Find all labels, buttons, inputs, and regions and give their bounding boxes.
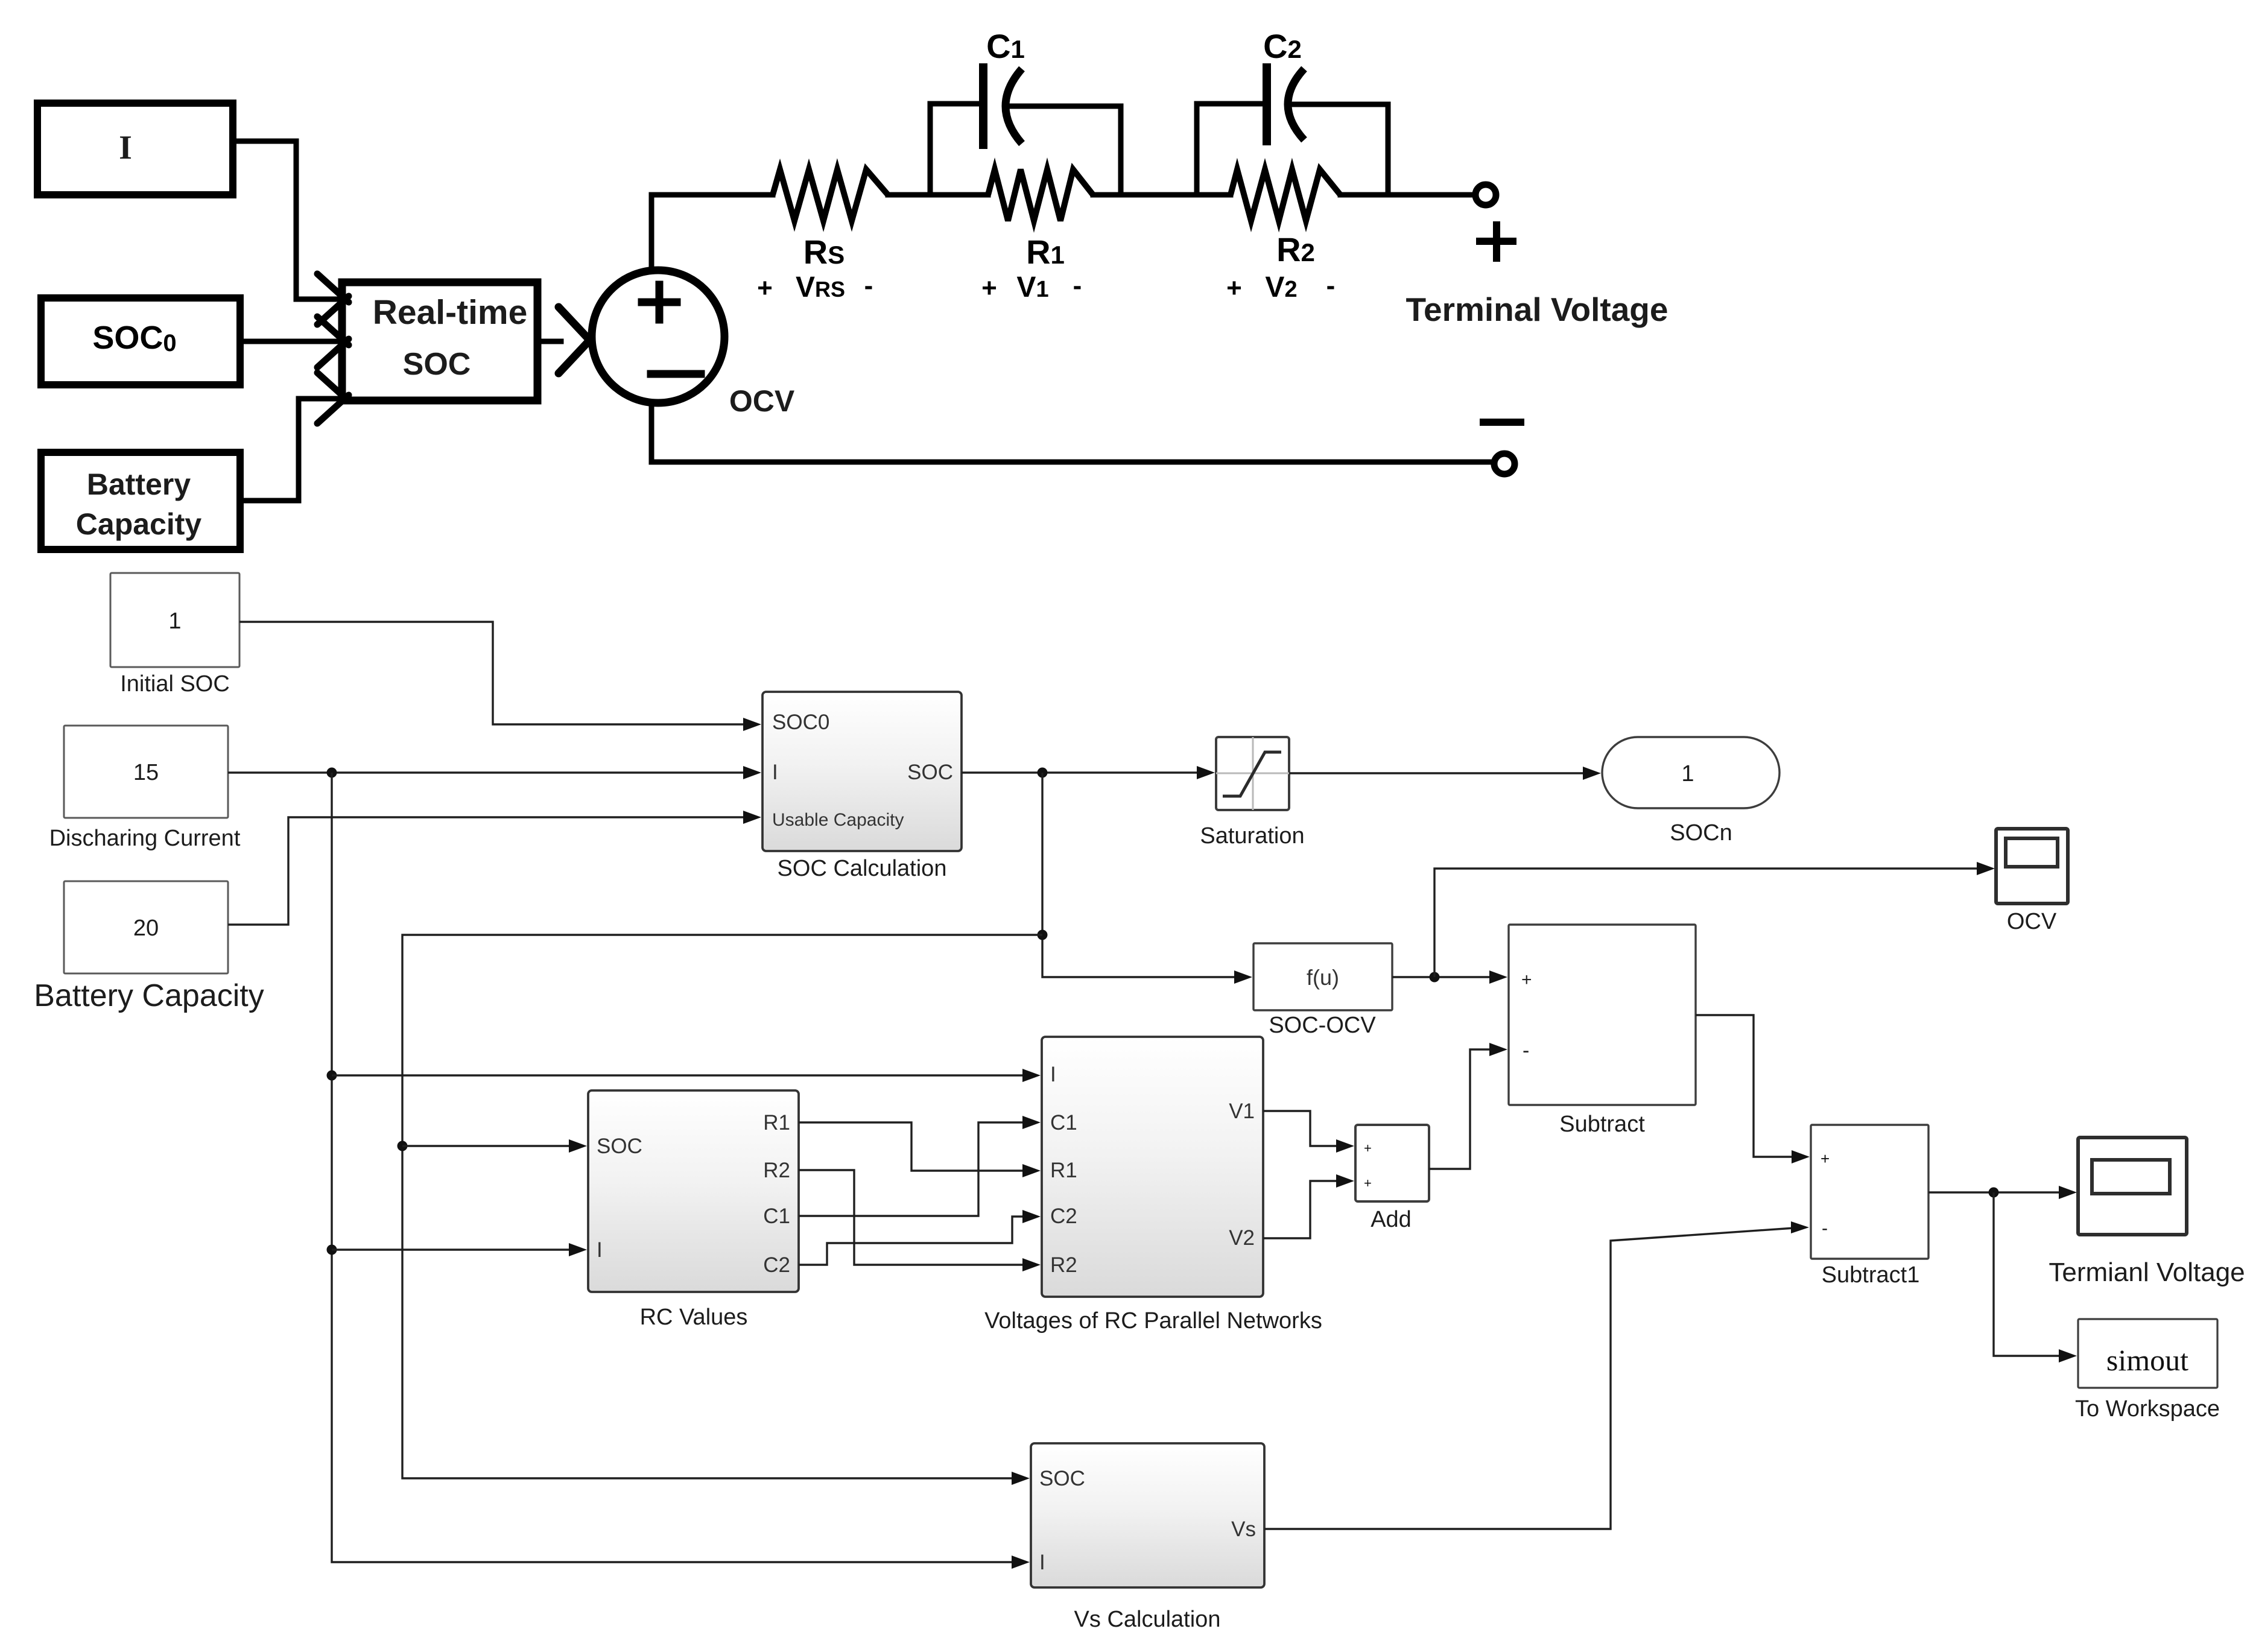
svg-text:R1: R1 bbox=[763, 1111, 790, 1135]
svg-text:+: + bbox=[1364, 1176, 1372, 1191]
svg-text:Voltages of RC Parallel Networ: Voltages of RC Parallel Networks bbox=[984, 1308, 1322, 1334]
svg-text:C2: C2 bbox=[1050, 1204, 1077, 1228]
svg-text:OCV: OCV bbox=[729, 384, 795, 418]
svg-text:Vs Calculation: Vs Calculation bbox=[1074, 1607, 1221, 1632]
svg-text:I: I bbox=[1039, 1551, 1045, 1574]
svg-text:SOC: SOC bbox=[1039, 1467, 1085, 1490]
svg-text:Initial SOC: Initial SOC bbox=[120, 671, 230, 697]
svg-text:Usable Capacity: Usable Capacity bbox=[772, 810, 904, 830]
svg-text:Battery Capacity: Battery Capacity bbox=[34, 978, 264, 1013]
svg-text:Battery: Battery bbox=[87, 467, 191, 501]
svg-text:V1: V1 bbox=[1229, 1100, 1255, 1123]
svg-text:R1: R1 bbox=[1050, 1159, 1077, 1182]
svg-text:Capacity: Capacity bbox=[76, 507, 202, 541]
svg-text:Subtract: Subtract bbox=[1559, 1112, 1645, 1137]
svg-text:20: 20 bbox=[133, 916, 159, 941]
svg-text:I: I bbox=[1050, 1063, 1056, 1086]
svg-text:Termianl Voltage: Termianl Voltage bbox=[2049, 1258, 2245, 1287]
svg-text:R2: R2 bbox=[763, 1159, 790, 1182]
svg-text:SOCn: SOCn bbox=[1670, 820, 1732, 846]
svg-text:I: I bbox=[772, 761, 778, 784]
svg-text:+: + bbox=[981, 273, 997, 303]
svg-text:1: 1 bbox=[1681, 761, 1694, 786]
svg-text:C1: C1 bbox=[1050, 1111, 1077, 1135]
svg-text:SOC: SOC bbox=[907, 761, 953, 784]
svg-text:+: + bbox=[1521, 970, 1532, 990]
svg-text:Saturation: Saturation bbox=[1200, 823, 1304, 849]
svg-text:To Workspace: To Workspace bbox=[2075, 1396, 2220, 1422]
svg-text:C1: C1 bbox=[763, 1204, 790, 1228]
svg-text:SOC Calculation: SOC Calculation bbox=[778, 856, 947, 881]
svg-text:SOC: SOC bbox=[403, 347, 471, 382]
svg-text:15: 15 bbox=[133, 760, 159, 785]
svg-text:simout: simout bbox=[2106, 1343, 2188, 1377]
svg-text:OCV: OCV bbox=[2007, 909, 2057, 934]
svg-text:-: - bbox=[1822, 1218, 1828, 1238]
svg-text:SOC: SOC bbox=[597, 1135, 642, 1158]
svg-text:-: - bbox=[864, 271, 873, 300]
svg-text:+: + bbox=[1226, 273, 1242, 303]
svg-text:Subtract1: Subtract1 bbox=[1822, 1262, 1920, 1288]
svg-text:I: I bbox=[119, 129, 132, 166]
svg-text:V2: V2 bbox=[1229, 1226, 1255, 1250]
svg-text:Add: Add bbox=[1371, 1207, 1412, 1232]
svg-text:-: - bbox=[1073, 271, 1082, 300]
svg-text:Real-time: Real-time bbox=[373, 293, 528, 332]
svg-text:-: - bbox=[1523, 1039, 1529, 1062]
svg-text:C2: C2 bbox=[763, 1253, 790, 1277]
svg-text:+: + bbox=[757, 273, 773, 303]
svg-text:f(u): f(u) bbox=[1307, 965, 1339, 990]
svg-text:R2: R2 bbox=[1050, 1253, 1077, 1277]
svg-text:Discharing Current: Discharing Current bbox=[49, 826, 241, 851]
svg-text:-: - bbox=[1326, 271, 1336, 300]
svg-text:1: 1 bbox=[168, 609, 181, 634]
svg-text:SOC-OCV: SOC-OCV bbox=[1269, 1013, 1376, 1038]
svg-text:Terminal Voltage: Terminal Voltage bbox=[1405, 291, 1668, 328]
svg-text:+: + bbox=[1821, 1150, 1830, 1168]
svg-text:SOC0: SOC0 bbox=[772, 710, 829, 734]
svg-text:I: I bbox=[597, 1238, 603, 1262]
svg-text:+: + bbox=[1364, 1141, 1372, 1156]
svg-text:Vs: Vs bbox=[1231, 1517, 1256, 1541]
svg-text:RC Values: RC Values bbox=[640, 1305, 748, 1330]
